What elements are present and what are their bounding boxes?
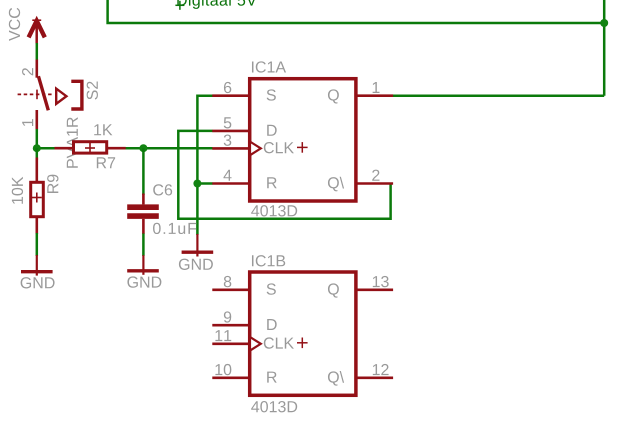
actuator triangle <box>56 89 66 104</box>
junction: node A <box>33 144 41 152</box>
pin number 13 <box>373 276 389 287</box>
wire: node A to CLK row horizontal (under R7) <box>37 147 213 150</box>
resistor R7 <box>55 142 126 153</box>
wire: R9 to GND <box>36 233 39 256</box>
resistor R9 <box>31 158 44 235</box>
pin name R (IC1A) <box>267 177 276 188</box>
name R7 <box>97 157 115 168</box>
pin 4 stub (R) <box>212 182 250 185</box>
pin number 4 <box>223 170 231 181</box>
switch S2 <box>18 60 82 130</box>
value 1K of R7 <box>94 124 112 135</box>
pin 1 stub (Q) <box>356 94 393 97</box>
pin 12 stub (Q\) <box>356 376 393 379</box>
wire: VCC to S2 pin 2 <box>36 43 39 60</box>
actuator dashed link <box>18 93 53 95</box>
pin name D (IC1B) <box>267 319 276 330</box>
pin number 12 <box>373 364 389 375</box>
pin 6 stub (S) <box>212 94 250 97</box>
pin number 2 <box>372 170 379 181</box>
value label PVA1R of S2 (rotated) <box>67 117 78 167</box>
value 4013D of IC1A <box>251 205 297 216</box>
name C6 <box>153 184 172 195</box>
pin number 3 <box>224 135 232 146</box>
wire: C6 to GND <box>142 234 145 257</box>
pin number 5 <box>224 117 232 128</box>
pin 11 stub (CLK) <box>212 342 250 345</box>
origin cross <box>297 342 308 344</box>
body <box>250 272 356 395</box>
pin 1 stub <box>35 110 38 129</box>
pin name Q\ (IC1A) <box>328 177 344 192</box>
label: S2 (rotated) <box>87 82 98 100</box>
pin 5 stub (D) <box>212 130 250 133</box>
ground GND (below R9) <box>21 255 53 276</box>
pin name S (IC1B) <box>267 283 276 294</box>
pin number 2 of S2 (rotated) <box>22 68 33 75</box>
wire: D (pin 5) to Q\ (pin 2) feedback loop <box>178 131 390 219</box>
pin 2 stub (Q\) <box>356 182 393 185</box>
origin cross <box>297 146 308 148</box>
ground GND (below C6) <box>127 255 159 275</box>
capacitor C6 <box>127 194 159 235</box>
wire: node A down to R9 <box>36 148 39 160</box>
lever <box>38 76 48 110</box>
pin stubs <box>55 147 74 150</box>
pin 10 stub (R) <box>212 376 250 379</box>
value 0.1uF of C6 <box>153 223 196 234</box>
pin 13 stub (Q) <box>356 288 393 291</box>
wire: net Digitaal 5V top-left riser and top horizontal run <box>108 0 605 23</box>
pin name D (IC1A) <box>267 125 276 136</box>
pin name CLK (IC1B) <box>264 337 294 348</box>
pin 9 stub (D) <box>212 324 250 327</box>
IC1B flip-flop <box>212 272 393 395</box>
value 4013D of IC1B <box>251 401 297 412</box>
pin number 1 <box>373 82 380 93</box>
wire: S2 pin 1 down to node A <box>36 129 39 148</box>
body <box>250 79 356 201</box>
pin name S (IC1A) <box>267 89 276 100</box>
pin name Q\ (IC1B) <box>328 371 344 386</box>
pin number 8 <box>224 276 232 287</box>
junction: node B (R7 / C6 / CLK) <box>139 144 147 152</box>
pin name R (IC1B) <box>267 372 276 383</box>
pin number 1 of S2 (rotated) <box>22 119 33 126</box>
pin name Q (IC1A) <box>328 89 339 103</box>
wire: S (pin 6) horizontal and vertical down to GND (crosses D and CLK rows) <box>197 96 212 235</box>
pin 2 stub <box>35 60 38 78</box>
pin number 11 <box>215 330 231 341</box>
label GND (below R9) <box>21 277 55 288</box>
pin name Q (IC1B) <box>328 283 339 297</box>
label: net name Digitaal 5V with origin cross <box>175 1 184 10</box>
pin number 9 <box>224 311 231 322</box>
wire: right vertical from top edge down to Q of IC1A <box>603 0 606 96</box>
value 10K of R9 (rotated) <box>12 177 23 204</box>
label: VCC (rotated) <box>9 8 20 41</box>
wire: R (pin 4) tap from vertical <box>197 182 212 185</box>
pin number 10 <box>215 364 231 375</box>
pin number 6 <box>224 82 231 93</box>
wire: node B down to C6 <box>142 148 145 195</box>
junction: R pin tap <box>193 180 201 188</box>
origin cross <box>85 147 95 149</box>
clock triangle <box>250 142 261 156</box>
name R9 (rotated) <box>47 175 58 193</box>
clock triangle <box>250 337 261 351</box>
IC1A flip-flop <box>212 79 393 201</box>
junction: top-right net junction <box>600 19 608 27</box>
pin 3 stub (CLK) <box>212 147 250 150</box>
supply symbol VCC <box>29 20 45 43</box>
label: net name Digitaal 5V <box>177 0 256 9</box>
origin cross <box>36 90 38 100</box>
pin 8 stub (S) <box>212 288 250 291</box>
wire: Q (pin 1) net horizontal <box>392 94 604 97</box>
name IC1A <box>252 61 286 72</box>
label GND (S/R of IC1A) <box>179 259 213 270</box>
actuator bracket <box>71 81 82 109</box>
name IC1B <box>252 255 285 266</box>
pin name CLK (IC1A) <box>264 142 294 153</box>
ground GND (S/R of IC1A) <box>182 234 214 257</box>
label GND (below C6) <box>127 276 161 287</box>
origin cross <box>32 197 42 199</box>
